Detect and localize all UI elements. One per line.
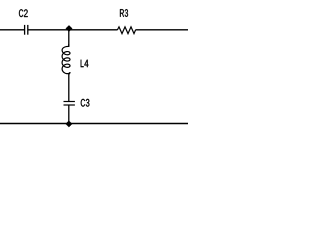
resistor R3 <box>117 27 135 34</box>
capacitor C2 <box>25 25 28 35</box>
wire top rail right of R3 <box>136 29 189 31</box>
wire L4 to C3 <box>68 74 70 101</box>
capacitor C3 <box>64 102 75 106</box>
wire C3 to bottom rail <box>68 105 70 124</box>
wire top rail left of C2 <box>0 29 25 31</box>
node junction dot bottom <box>66 121 72 127</box>
label L4 <box>81 60 89 67</box>
wire node to L4 <box>68 30 70 47</box>
label C3 <box>81 99 90 107</box>
wire top rail C2 to R3 through node <box>28 29 118 31</box>
label R3 <box>120 9 128 17</box>
node junction dot top <box>66 25 72 31</box>
inductor L4 <box>62 44 70 74</box>
wire bottom rail <box>0 123 188 125</box>
label C2 <box>19 9 28 17</box>
